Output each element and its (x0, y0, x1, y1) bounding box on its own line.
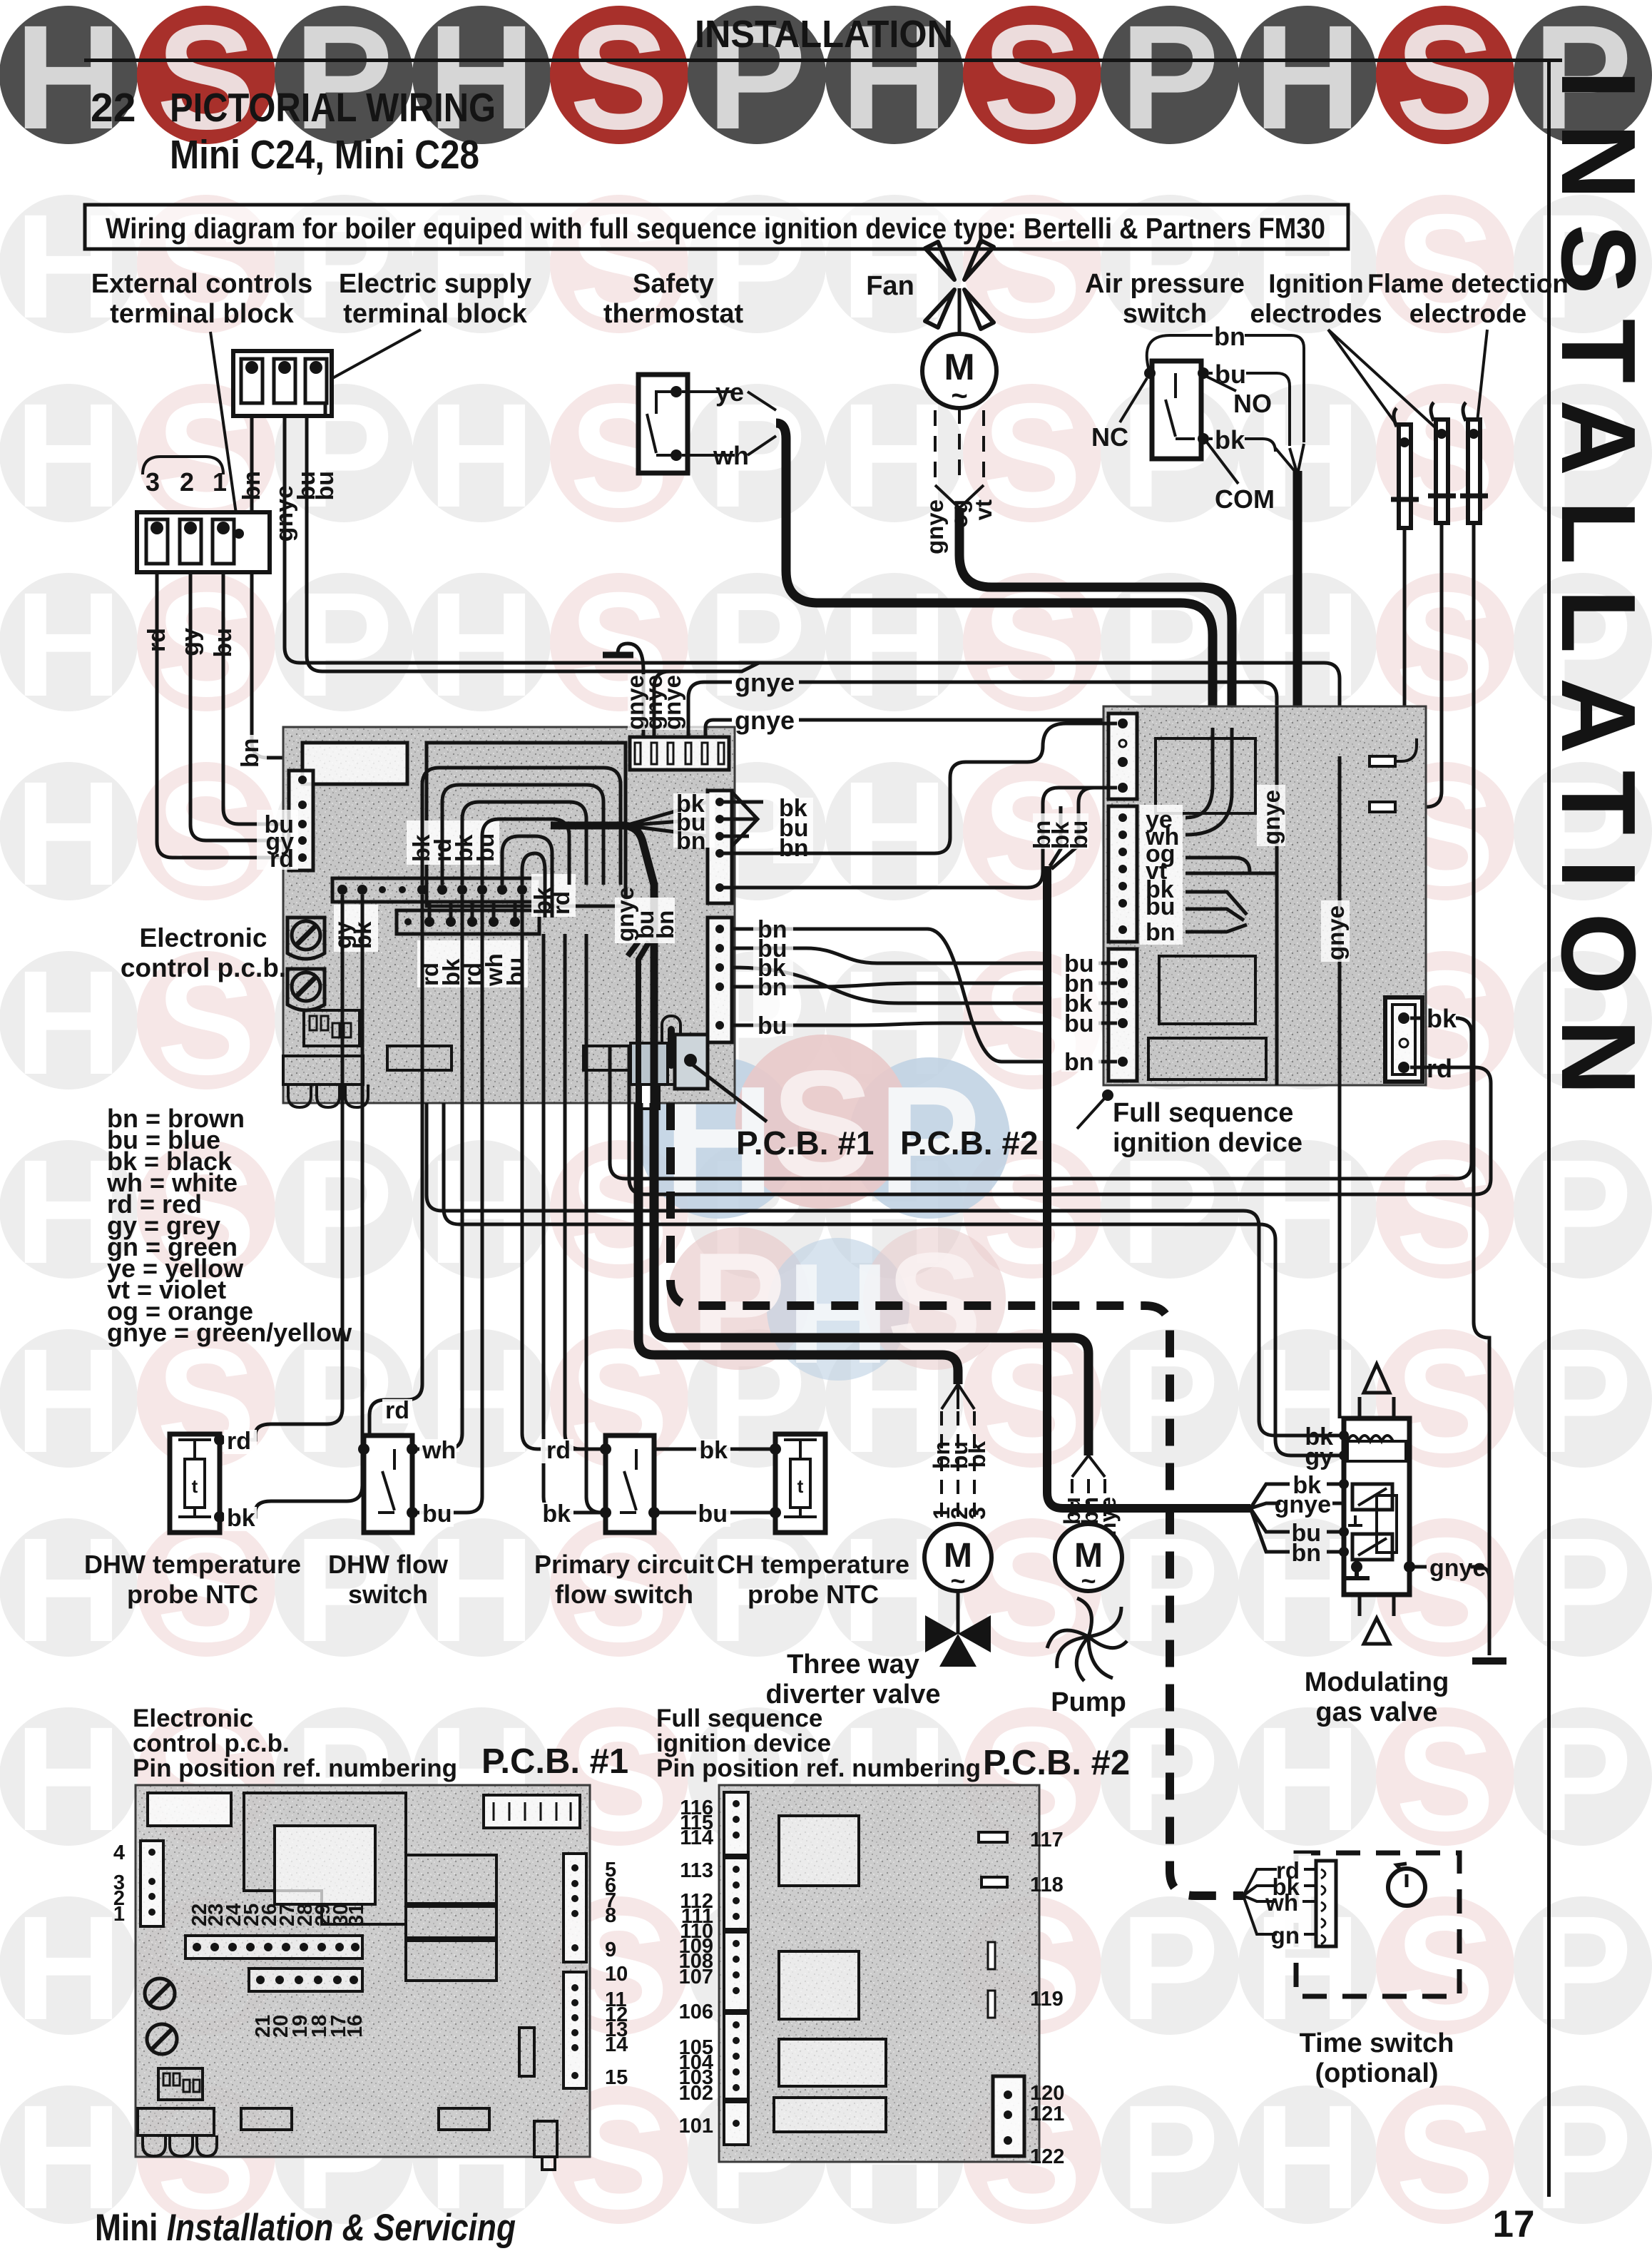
svg-text:S: S (983, 0, 1082, 161)
PCB1 capsule component (662, 1016, 680, 1084)
svg-text:121: 121 (1030, 2103, 1064, 2125)
svg-text:4: 4 (113, 1841, 125, 1864)
wire ye from thermostat (682, 390, 735, 393)
svg-text:bk: bk (964, 1441, 990, 1468)
svg-text:gnye: gnye (922, 499, 948, 554)
wire bu b from supply block (324, 403, 327, 416)
svg-text:S: S (570, 0, 669, 161)
svg-text:113: 113 (680, 1859, 713, 1882)
svg-text:Modulating: Modulating (1305, 1667, 1449, 1697)
svg-text:bn: bn (652, 910, 678, 939)
svg-text:rd: rd (546, 1437, 571, 1464)
svg-text:CH temperature: CH temperature (717, 1550, 909, 1579)
plan1 pin numbers 22-31 (188, 1904, 368, 1926)
wire bu from supply block (307, 416, 671, 671)
fan wires gnye og vt (dashed) (935, 408, 984, 485)
thick wire thermostat to PCB2 (776, 423, 1213, 706)
label bn at PCB1 left pin (235, 735, 267, 768)
svg-text:106: 106 (679, 2001, 713, 2023)
wire gnye pcb1 to PCB2 (lower) (705, 720, 1340, 756)
svg-text:Time switch: Time switch (1300, 2028, 1454, 2058)
svg-text:bu: bu (210, 628, 237, 658)
svg-text:gnye: gnye (1258, 790, 1285, 845)
svg-text:9: 9 (605, 1939, 616, 1961)
thick wire APS to PCB2 (1293, 471, 1302, 706)
svg-text:Full sequence: Full sequence (1113, 1098, 1293, 1128)
svg-text:gnye: gnye (735, 668, 795, 697)
svg-text:rd: rd (385, 1397, 409, 1424)
plan2 pin numbers left (679, 1797, 713, 2138)
svg-text:bu: bu (312, 471, 339, 501)
svg-text:22: 22 (91, 85, 136, 131)
wire flame electrode down to gnye ground (1474, 523, 1489, 1655)
PCB1 electronic control pcb board (235, 727, 735, 1109)
label bk (primary flow) (539, 1500, 573, 1528)
plan1 pin numbers right 5-15 (605, 1859, 628, 2089)
wire bu from NO (1209, 373, 1290, 446)
svg-text:17: 17 (1493, 2203, 1535, 2245)
crossing wires PCB1 to PCB2 connector C (732, 929, 1117, 1062)
terminal numbers 3 2 1 (143, 457, 227, 497)
footer (95, 2203, 1534, 2249)
svg-text:117: 117 (1030, 1829, 1064, 1851)
time switch clock icon (1388, 1869, 1425, 1906)
svg-text:bn: bn (779, 835, 809, 862)
svg-text:H: H (787, 1234, 889, 1393)
labels bk rd right of strip1 (529, 874, 576, 917)
fan bundle merge (935, 485, 984, 508)
svg-text:bn: bn (1064, 1049, 1094, 1076)
PCB2 full sequence ignition device board (1103, 706, 1426, 1418)
PCB1 plan view board (136, 1785, 590, 2170)
svg-text:bk: bk (1215, 425, 1245, 454)
wire bk to CH temp probe (565, 934, 775, 1449)
svg-text:terminal block: terminal block (343, 299, 527, 329)
svg-text:probe NTC: probe NTC (748, 1580, 879, 1609)
svg-text:bk: bk (1427, 1004, 1457, 1033)
bundle bn bk bu from PCB2 connector A down (1043, 788, 1117, 869)
svg-text:bn: bn (758, 974, 787, 1001)
svg-text:bn: bn (1291, 1540, 1321, 1567)
plan1 strips (185, 1936, 362, 1958)
gas valve gnye ground (1351, 1561, 1362, 1573)
gas valve relay 1 (1352, 1484, 1392, 1510)
svg-text:ye: ye (715, 377, 744, 407)
time switch dashed box (1296, 1853, 1459, 1996)
label wh (DHW flow) (419, 1437, 457, 1464)
caption full sequence ignition device pin position (656, 1704, 1130, 1782)
flame detection electrode (1460, 402, 1488, 523)
svg-text:bk: bk (542, 1500, 571, 1528)
thick bundle wire down to gas valve (1047, 866, 1250, 1508)
component caption: fan (866, 271, 914, 301)
banner box (85, 205, 1348, 249)
wire gnye from supply block down then right (285, 416, 1340, 706)
PCB1 small bottom rects (387, 1046, 452, 1070)
wire bk to DHW temp probe (235, 895, 362, 1517)
svg-text:bk: bk (699, 1437, 728, 1464)
svg-text:gnye: gnye (659, 675, 685, 730)
sidebar INSTALLATION (vertical) (1539, 60, 1652, 2197)
page header INSTALLATION (84, 13, 1562, 62)
wire bk PCB1 to PCB2 bk pin (long run) (610, 1018, 1472, 1179)
three way diverter valve motor M2 (924, 1384, 991, 1595)
labels gnye gnye gnye above PCB1 top connector (622, 674, 706, 730)
label bk (CH ntc) (696, 1437, 730, 1464)
ignition electrode 2 (1428, 402, 1456, 523)
svg-text:gnye: gnye (735, 706, 795, 735)
svg-text:(optional): (optional) (1315, 2058, 1438, 2088)
svg-text:Full sequence: Full sequence (656, 1704, 822, 1732)
svg-text:H: H (15, 0, 122, 161)
DHW flow switch (358, 1436, 418, 1533)
svg-text:120: 120 (1030, 2082, 1064, 2105)
gnye vertical runs inside PCB2 (1257, 706, 1350, 1418)
label rd (primary flow) (541, 1437, 573, 1464)
gas valve coil (1347, 1436, 1393, 1441)
wire ignition electrode 1 to PCB2 top (1403, 528, 1407, 706)
label rd (DHW ntc) (224, 1428, 257, 1455)
svg-text:~: ~ (950, 1566, 965, 1595)
svg-text:electrodes: electrodes (1250, 299, 1382, 328)
DHW temperature probe NTC (170, 1434, 225, 1533)
electric supply terminal block TB2 (233, 351, 332, 416)
svg-text:bk: bk (227, 1505, 255, 1532)
svg-text:P.C.B. #1: P.C.B. #1 (481, 1742, 628, 1781)
wire wh from thermostat (682, 454, 735, 457)
wire bu from TB1 term1 to PCB1 (223, 572, 302, 824)
wire bn from supply block down to PCB1 (252, 416, 302, 780)
svg-text:8: 8 (605, 1904, 616, 1927)
svg-text:10: 10 (605, 1963, 628, 1986)
svg-text:114: 114 (680, 1826, 713, 1849)
svg-text:rd: rd (227, 1428, 251, 1455)
wires from thick trunks to connector B pins (1186, 728, 1277, 932)
svg-text:vt: vt (970, 499, 996, 520)
svg-text:P.C.B. #1: P.C.B. #1 (736, 1124, 874, 1162)
wire bn over APS (1147, 335, 1304, 442)
PCB1 internal thick bundle to bk bu bn pins (551, 791, 715, 855)
label bu (CH ntc) (696, 1500, 730, 1528)
svg-text:bu: bu (698, 1500, 728, 1528)
PCB1 bottom right connector tabs (631, 1035, 708, 1109)
svg-text:gy: gy (177, 628, 204, 656)
plan1 centre rects (406, 1855, 496, 1904)
svg-text:31: 31 (345, 1904, 368, 1926)
label bk (DHW ntc) (224, 1505, 257, 1532)
svg-text:~: ~ (1081, 1566, 1096, 1595)
wires from PCB1 lower right pins to PCB2 connector A (720, 723, 1117, 888)
svg-text:thermostat: thermostat (603, 299, 744, 329)
labels gy bk below strip1 (330, 905, 378, 952)
time switch wire labels rd bk wh gn (1243, 1854, 1316, 1949)
svg-text:15: 15 (605, 2066, 628, 2089)
svg-text:119: 119 (1030, 1988, 1064, 2011)
svg-text:102: 102 (679, 2082, 713, 2105)
svg-text:Wiring diagram for boiler equi: Wiring diagram for boiler equiped with f… (106, 212, 1325, 245)
svg-text:DHW temperature: DHW temperature (84, 1550, 301, 1579)
wire ignition electrode 2 down right side into PCB2 (1418, 523, 1442, 807)
wire bk to primary flow switch (544, 934, 606, 1513)
svg-text:gnye: gnye (1275, 1491, 1331, 1518)
wire gnye pcb1 to PCB2 (upper) (688, 682, 1277, 737)
svg-text:Ignition: Ignition (1268, 269, 1364, 298)
PCB2 left connector B (7 pin) (1108, 806, 1137, 942)
component caption: external controls terminal block (91, 269, 312, 534)
svg-text:bu: bu (472, 833, 499, 862)
labels rd bk rd wh bu below strip2 (417, 940, 529, 987)
svg-text:~: ~ (951, 380, 967, 412)
svg-text:Safety: Safety (633, 269, 714, 299)
svg-text:bn: bn (676, 828, 706, 855)
ignition electrode 1 (1391, 408, 1419, 528)
svg-text:P: P (1121, 0, 1220, 161)
external controls terminal block TB1 (137, 512, 270, 572)
caption full sequence ignition device (1077, 1089, 1302, 1158)
PCB2 bottom-right connector (bk rd) (1385, 997, 1422, 1082)
svg-text:gas valve: gas valve (1315, 1697, 1437, 1727)
svg-text:switch: switch (348, 1580, 428, 1609)
svg-text:Pump: Pump (1051, 1687, 1126, 1717)
PCB2 right edge connector tabs (1370, 756, 1395, 766)
fan motor M1 (922, 334, 996, 412)
svg-text:Electric supply: Electric supply (339, 269, 531, 299)
svg-text:S: S (1396, 0, 1495, 161)
svg-text:bu: bu (502, 957, 529, 986)
gas valve bundle labels bk gnye bu bn (1250, 1472, 1349, 1567)
svg-text:Pin position ref. numbering: Pin position ref. numbering (133, 1754, 457, 1782)
plan1 top right connector (484, 1795, 580, 1828)
legend wire colour codes (106, 1104, 352, 1347)
PCB1 bottom terminal tabs (283, 1056, 368, 1107)
component caption: air pressure switch (1085, 269, 1245, 329)
svg-text:flow switch: flow switch (555, 1580, 693, 1609)
svg-text:DHW flow: DHW flow (328, 1550, 449, 1579)
svg-text:bu: bu (1146, 893, 1176, 920)
svg-text:ignition device: ignition device (1113, 1128, 1302, 1158)
wire rd to DHW flow switch top (369, 895, 422, 1436)
PCB1 left connector (5 pin) (289, 771, 313, 870)
svg-text:Flame detection: Flame detection (1367, 269, 1569, 298)
APS bundle merge to thick wire (1275, 444, 1304, 474)
PCB1 top connector (gnye header) (630, 737, 729, 770)
modulating gas valve (1344, 1364, 1409, 1644)
labels bu bn bk bu bn at PCB2 connector C (1061, 950, 1101, 1076)
svg-text:Fan: Fan (866, 271, 914, 301)
svg-text:Electronic: Electronic (140, 923, 267, 952)
gnye ground hook above PCB1 (603, 644, 643, 737)
plan2 right edge marks (979, 1832, 1007, 1842)
wire bu to DHW flow switch (412, 895, 482, 1513)
nested wire arcs inside PCB1 (422, 768, 621, 918)
svg-text:NO: NO (1233, 389, 1272, 418)
pump impeller icon (1047, 1598, 1127, 1681)
label bu (DHW flow) (419, 1500, 454, 1528)
svg-text:gnye = green/yellow: gnye = green/yellow (107, 1318, 352, 1347)
thick wire fan to PCB2 (959, 508, 1232, 706)
svg-text:ignition device: ignition device (656, 1729, 831, 1757)
plan2 pin numbers right (1030, 1829, 1064, 2168)
PCB2 inner rect low (1148, 1038, 1266, 1079)
plan1 trimmers (145, 1978, 175, 2008)
bundle bn bk bu from PCB1 to PCB2 (720, 792, 813, 863)
svg-text:gnye: gnye (1429, 1555, 1486, 1582)
caption electronic control pcb pin position (133, 1704, 628, 1782)
thick dashed wire PCB1 to time switch (671, 1103, 1243, 1896)
svg-text:Primary circuit: Primary circuit (534, 1550, 714, 1579)
svg-text:H: H (1254, 0, 1361, 161)
plan2 bottom right connector (993, 2076, 1024, 2156)
svg-text:INSTALLATION: INSTALLATION (695, 13, 953, 56)
PCB1 pin strip 2 (397, 910, 539, 934)
label rd (DHW flow) (382, 1397, 412, 1424)
plan1 pin numbers left 4 3 2 1 (113, 1841, 125, 1926)
svg-text:bu: bu (422, 1500, 452, 1528)
svg-text:switch: switch (1123, 299, 1207, 329)
primary circuit flow switch (600, 1436, 660, 1533)
svg-text:wh: wh (713, 441, 749, 470)
svg-text:P.C.B. #2: P.C.B. #2 (900, 1124, 1038, 1162)
component caption: safety thermostat (603, 269, 744, 329)
plan2 left connectors (724, 1792, 748, 1855)
svg-text:COM: COM (1215, 484, 1275, 514)
svg-text:PICTORIAL WIRING: PICTORIAL WIRING (170, 85, 496, 131)
svg-text:P.C.B. #2: P.C.B. #2 (983, 1744, 1130, 1782)
PCB2 inner rect upper (1156, 738, 1255, 813)
svg-text:122: 122 (1030, 2145, 1064, 2168)
svg-text:NC: NC (1091, 422, 1128, 452)
svg-text:16: 16 (344, 2015, 367, 2038)
wire bk from COM (1209, 439, 1275, 452)
wire rd PCB1 to PCB2 rd pin (long run) (629, 1046, 1491, 1194)
plan1 dip (158, 2068, 203, 2100)
safety thermostat ST (638, 375, 688, 473)
PCB1 internal gnye bu bn bundle (612, 887, 678, 1103)
svg-text:bu: bu (758, 1012, 787, 1040)
caption electronic control pcb (121, 923, 286, 982)
pump motor M3 (1055, 1455, 1122, 1595)
plan1 bottom tabs (138, 2108, 214, 2135)
svg-text:14: 14 (605, 2033, 628, 2056)
svg-text:External controls: External controls (91, 269, 312, 299)
plan2 inner rects (779, 1816, 859, 1886)
svg-text:bu: bu (1064, 1010, 1094, 1037)
svg-text:Air pressure: Air pressure (1085, 269, 1245, 299)
air pressure switch APS (1144, 361, 1209, 459)
svg-text:2: 2 (180, 467, 194, 497)
svg-text:gnye: gnye (1322, 905, 1349, 960)
svg-text:bn: bn (238, 471, 265, 501)
svg-text:control p.c.b.: control p.c.b. (133, 1729, 290, 1757)
labels bn bu bk bn bu at PCB1 lower right pins (753, 915, 793, 1040)
plan1 right connectors (564, 1854, 586, 1962)
svg-text:1: 1 (213, 467, 227, 497)
thermostat wire bracket merge (748, 392, 776, 455)
PCB2 left connector A (1108, 713, 1137, 799)
wire gy to gas valve coil (444, 1103, 1344, 1455)
svg-text:probe NTC: probe NTC (127, 1580, 258, 1609)
component caption: flame detection electrode (1367, 269, 1569, 428)
svg-text:bu: bu (1066, 820, 1092, 849)
PCB1 right connector upper (8 pin) (708, 791, 732, 903)
PCB1 pin strip 1 (332, 878, 541, 902)
wire gy from TB1 term2 to PCB1 (190, 572, 302, 840)
svg-text:bn: bn (1146, 919, 1176, 946)
wire rd to DHW temp probe (235, 895, 342, 1440)
svg-text:bu: bu (1215, 360, 1246, 389)
svg-text:3: 3 (146, 467, 160, 497)
wires from PCB2 right tabs (1395, 738, 1417, 761)
svg-text:Mini Installation & Servicing: Mini Installation & Servicing (95, 2207, 516, 2249)
svg-text:107: 107 (679, 1966, 713, 1988)
svg-text:INSTALLATION: INSTALLATION (1539, 70, 1652, 1119)
wire gnye pcb1 pin2 up to bus (654, 663, 759, 737)
wire bu to CH temp probe (586, 934, 775, 1513)
svg-text:gy: gy (1305, 1443, 1333, 1470)
trimmer RV1 (287, 918, 325, 959)
svg-text:wh: wh (1265, 1889, 1298, 1916)
PCB1 internal thick wire down (to pump) (622, 825, 654, 1103)
svg-text:101: 101 (679, 2115, 713, 2138)
wire gnye from gas valve to ground (1404, 1555, 1506, 1661)
plan1 pin numbers 21-16 (252, 2015, 367, 2038)
wire wh to DHW flow switch (412, 895, 462, 1449)
svg-text:rd: rd (143, 628, 170, 652)
labels bu gy rd at PCB1 left pins (257, 810, 298, 873)
component caption: ignition electrodes (1250, 269, 1436, 434)
plan1 left connector (141, 1841, 163, 1926)
svg-text:electrode: electrode (1409, 299, 1527, 328)
svg-text:Mini C24, Mini C28: Mini C24, Mini C28 (170, 132, 479, 178)
svg-text:terminal block: terminal block (110, 299, 294, 329)
PCB2 left connector C (5 pin) (1108, 949, 1137, 1081)
svg-text:control p.c.b.: control p.c.b. (121, 953, 286, 982)
section title (91, 85, 496, 178)
gas valve relay 2 (1352, 1534, 1392, 1560)
wire bk to gas valve coil (427, 1103, 1344, 1436)
svg-text:bn: bn (237, 738, 264, 768)
labels ye wh og vt bk bu bn at PCB2 connector B (1140, 805, 1183, 946)
PCB2 inner rect mid (1159, 956, 1255, 1024)
PCB1 right connector lower (5 pin) (708, 918, 732, 1042)
CH temperature probe NTC (770, 1434, 825, 1533)
wire rd to primary flow switch (522, 895, 606, 1449)
svg-text:bn: bn (1214, 322, 1245, 351)
thick wire PCB1 to three way valve (638, 1103, 958, 1384)
component caption: electric supply terminal block (320, 269, 531, 385)
labels bn bk bu rotated at bundle (1029, 813, 1092, 849)
svg-text:t: t (192, 1475, 198, 1497)
svg-text:3: 3 (964, 1507, 990, 1520)
svg-text:rd: rd (270, 845, 294, 873)
thick wire PCB1 to pump (654, 1103, 1088, 1455)
svg-text:Pin position ref. numbering: Pin position ref. numbering (656, 1754, 981, 1782)
DIP switch block (304, 1010, 360, 1046)
fan propeller icon (925, 240, 994, 335)
trimmer RV2 (287, 969, 325, 1010)
svg-text:wh: wh (422, 1437, 456, 1464)
label P.C.B. #1 (690, 1063, 874, 1162)
labels bk rd bk bu above strip1 (407, 820, 499, 865)
svg-text:t: t (797, 1475, 804, 1497)
PCB2 plan view board (719, 1785, 1039, 2162)
label P.C.B. #2 (900, 1124, 1038, 1162)
svg-text:gn: gn (1271, 1922, 1300, 1949)
svg-text:118: 118 (1030, 1874, 1064, 1896)
svg-text:Electronic: Electronic (133, 1704, 253, 1732)
three way diverter valve body (925, 1591, 991, 1667)
svg-text:Three way: Three way (787, 1650, 919, 1680)
